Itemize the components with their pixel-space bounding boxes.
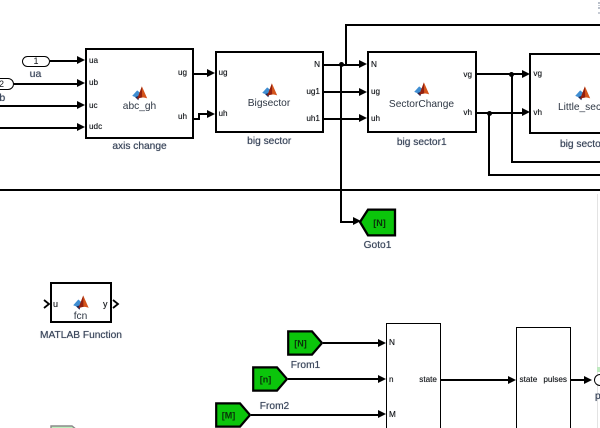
state block 1 (386, 323, 441, 428)
junction dot vg branch (509, 72, 514, 77)
port state out (415, 376, 437, 384)
logo SectorChange (414, 82, 430, 97)
block Little_sector (big sector2, cut at right) (529, 53, 600, 134)
port u (53, 300, 58, 308)
arrowhead ub (77, 79, 85, 87)
junction dot vh branch (487, 111, 492, 116)
port ub (89, 79, 98, 87)
wire Bigsector.N to SectorChange.N (324, 64, 360, 66)
port state in (520, 376, 538, 384)
arrowhead Goto1 (353, 217, 361, 225)
MATLAB Function block (50, 282, 113, 323)
svg-text:[N]: [N] (373, 218, 386, 228)
name Bigsector (219, 98, 319, 109)
label big sector (215, 136, 325, 147)
logo MATLAB Function (73, 295, 89, 310)
port vg out (458, 71, 472, 79)
arrowhead Little vg (522, 70, 530, 78)
name Little_sector2 (558, 102, 600, 113)
arrowhead uc (77, 101, 85, 109)
From3 tag [M] (214, 402, 254, 428)
label MATLAB Function (37, 330, 125, 341)
wire From3 to M (251, 414, 380, 416)
port uh (371, 115, 380, 123)
label big sector2 (560, 139, 600, 150)
wire abc_gh.uh jog (194, 118, 200, 120)
port vh (533, 109, 542, 117)
arrowhead N (378, 339, 386, 347)
wire branch down to Goto1 (340, 65, 342, 222)
wire from port1 to abc_gh.ua (50, 60, 78, 62)
label big sector1 (367, 137, 477, 148)
port y (103, 300, 108, 308)
wire From1 to N (323, 342, 380, 344)
branch down from vh (488, 113, 490, 176)
arrowhead state (508, 376, 516, 384)
wire abc_gh.ug to Bigsector.ug (194, 73, 208, 75)
arrowhead Bigsector ug (207, 69, 215, 77)
wire Bigsector.uh1 to SectorChange.uh (324, 118, 360, 120)
arrowhead SectorChange ug (359, 88, 367, 96)
arrowhead SectorChange N (359, 60, 367, 68)
From1 tag (286, 330, 326, 357)
wire SectorChange.vg to Little_sector.vg (477, 73, 523, 75)
state block 2 (516, 327, 571, 428)
port N (371, 61, 377, 69)
port ug1 out (305, 88, 320, 96)
logo Little_sector (575, 86, 591, 101)
port M (389, 411, 396, 419)
port N out (313, 61, 320, 69)
branch down from vg (511, 74, 513, 162)
name fcn (50, 311, 111, 322)
label pulses (cut, shows p) (595, 391, 600, 402)
svg-text:[n]: [n] (259, 374, 271, 384)
logo abc_gh (132, 86, 148, 101)
svg-text:[M]: [M] (221, 410, 235, 420)
wire branch up x=345.7 (345, 24, 347, 65)
output port oval (cut at right) (594, 374, 600, 387)
label From1 (278, 360, 333, 371)
faint right edge line (597, 194, 598, 428)
MATLAB logo symbol (0, 0, 1, 1)
arrowhead n (378, 375, 386, 383)
port n (389, 376, 394, 384)
port pulses out (541, 376, 567, 384)
port ua (89, 57, 98, 65)
wire From2 to n (288, 378, 380, 380)
label axis change (85, 141, 194, 152)
label Goto1 (350, 240, 405, 251)
right edge text fragments (cut-off) (598, 2, 600, 4)
port uc (89, 102, 98, 110)
input chevron u (43, 299, 51, 309)
port udc (89, 123, 102, 131)
arrowhead udc (77, 123, 85, 131)
label ub (cut, shows "b") (0, 93, 16, 104)
arrowhead M (378, 410, 386, 418)
wire uc from left edge (0, 105, 78, 107)
junction dot N branch (339, 62, 344, 67)
From2 tag (251, 366, 291, 393)
input port 1 (oval "1") (22, 56, 50, 68)
label From2 (247, 401, 302, 412)
port N (389, 339, 395, 347)
arrowhead SectorChange uh (359, 114, 367, 122)
port ug (371, 88, 380, 96)
name abc_gh (89, 101, 190, 112)
separator line (0, 189, 600, 191)
port uh1 out (305, 115, 320, 123)
block Bigsector (big sector) (215, 51, 325, 133)
arrowhead Little vh (522, 108, 530, 116)
wire from port2 to abc_gh.ub (14, 83, 78, 85)
input port 2 (oval "2", cut at left edge) (0, 78, 14, 90)
pale green fragment right edge (597, 367, 600, 372)
wire udc from left edge (0, 127, 78, 129)
arrowhead ua (77, 56, 85, 64)
top wire to right edge (345, 24, 600, 26)
arrowhead Bigsector uh (207, 110, 215, 118)
port ug (219, 69, 228, 77)
arrowhead output (584, 376, 592, 384)
name SectorChange (371, 99, 472, 110)
Goto1 tag (358, 208, 398, 238)
wire SectorChange.vh to Little_sector.vh (477, 112, 523, 114)
port vh out (458, 109, 472, 117)
logo Bigsector (262, 83, 278, 98)
wire pulses to output port (571, 379, 586, 381)
output chevron y (112, 299, 120, 309)
block SectorChange (big sector1) (367, 51, 477, 133)
svg-text:[N]: [N] (294, 338, 307, 348)
wire Bigsector.ug1 to SectorChange.ug (324, 91, 360, 93)
port uh out (178, 113, 187, 121)
port ug out (178, 69, 187, 77)
port uh (219, 110, 228, 118)
block abc_gh (axis change) (85, 48, 194, 139)
wire state1 to state2 (441, 379, 509, 381)
port vg (533, 70, 542, 78)
light green tag sliver at bottom (50, 425, 80, 428)
label ua (20, 69, 51, 80)
